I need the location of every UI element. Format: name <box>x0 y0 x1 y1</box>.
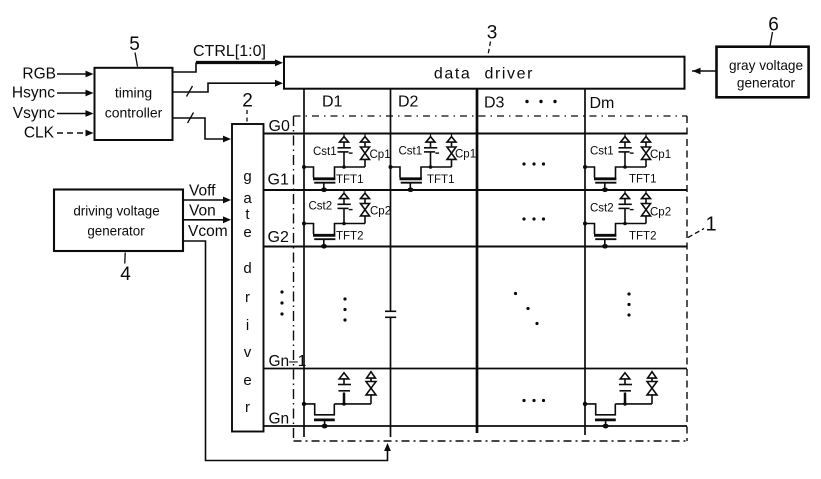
svg-text:generator: generator <box>737 76 796 91</box>
svg-text:CLK: CLK <box>24 125 55 142</box>
svg-text:Vcom: Vcom <box>188 223 228 240</box>
svg-text:1: 1 <box>705 214 716 236</box>
svg-text:driving voltage: driving voltage <box>73 204 159 219</box>
data driver box (3) <box>284 57 685 89</box>
wire: gray voltage generator to data driver <box>692 70 716 72</box>
gate line G2 <box>264 246 687 248</box>
gray voltage generator box (6) <box>717 47 809 98</box>
gate line G0 <box>264 133 687 135</box>
svg-text:D1: D1 <box>322 94 343 111</box>
svg-text:generator: generator <box>87 224 145 239</box>
svg-text:2: 2 <box>242 91 253 112</box>
svg-text:TFT1: TFT1 <box>629 174 656 186</box>
gate line Gn <box>264 425 687 427</box>
svg-text:3: 3 <box>487 23 498 44</box>
svg-text:CTRL[1:0]: CTRL[1:0] <box>193 43 266 60</box>
svg-text:Cst2: Cst2 <box>309 201 333 213</box>
svg-text:d: d <box>243 260 251 277</box>
svg-text:Voff: Voff <box>189 183 216 200</box>
svg-text:Vsync: Vsync <box>13 105 55 122</box>
svg-text:gray voltage: gray voltage <box>729 58 803 73</box>
svg-text:Hsync: Hsync <box>12 85 55 102</box>
svg-text:Cp1: Cp1 <box>650 149 671 161</box>
pixel cell TFT1 at Dm/G1 <box>583 134 651 192</box>
pixel cell TFT1 at D1/G1 <box>302 134 370 192</box>
svg-text:controller: controller <box>105 105 163 121</box>
wire: timing controller to data driver (lower) <box>173 83 277 92</box>
svg-text:G0: G0 <box>269 118 290 135</box>
pixel cell at Dm/Gn (unlabeled) <box>583 372 657 429</box>
svg-text:TFT1: TFT1 <box>336 174 363 186</box>
bus CTRL: timing controller to data driver <box>173 63 197 73</box>
vertical ellipsis left of panel <box>280 290 283 315</box>
data line D3 (thick) <box>476 89 479 433</box>
svg-text:Cp1: Cp1 <box>370 149 391 161</box>
pixel cell TFT1 at D2/G1 <box>389 134 457 192</box>
svg-text:Cst1: Cst1 <box>399 146 423 158</box>
svg-text:Cst2: Cst2 <box>590 203 614 215</box>
gate line G1 <box>264 189 687 191</box>
svg-text:TFT1: TFT1 <box>427 174 454 186</box>
driving voltage generator box (4) <box>54 190 183 252</box>
svg-text:D2: D2 <box>398 94 419 111</box>
bus slash mark <box>187 86 193 97</box>
svg-text:data driver: data driver <box>434 66 534 83</box>
svg-text:5: 5 <box>129 34 140 55</box>
horizontal ellipsis bottom row between D3 and Dm <box>522 399 545 402</box>
svg-text:timing: timing <box>115 85 152 101</box>
svg-text:v: v <box>244 344 252 361</box>
panel dashed border (LCD panel 1) <box>294 115 688 117</box>
svg-text:g: g <box>243 168 251 185</box>
svg-text:Cp2: Cp2 <box>370 206 391 218</box>
svg-text:a: a <box>243 190 252 207</box>
svg-text:Gn: Gn <box>269 411 290 428</box>
svg-text:Gn–1: Gn–1 <box>269 353 307 370</box>
timing controller box (5) <box>95 68 173 140</box>
svg-text:D3: D3 <box>484 95 505 112</box>
svg-text:Cp1: Cp1 <box>455 149 476 161</box>
pixel cell TFT2 at Dm/G2 <box>583 191 651 249</box>
svg-text:Dm: Dm <box>590 95 615 112</box>
svg-text:4: 4 <box>120 264 131 285</box>
svg-text:6: 6 <box>768 15 779 36</box>
ellipsis dots after D3 label <box>525 100 556 103</box>
horizontal ellipsis row1 between D3 and Dm <box>522 162 545 165</box>
data line Dm <box>584 89 586 435</box>
svg-text:r: r <box>245 399 250 416</box>
svg-text:Cp2: Cp2 <box>650 207 671 219</box>
svg-text:G1: G1 <box>268 172 289 189</box>
svg-text:e: e <box>243 224 251 241</box>
pixel cell at D1/Gn (unlabeled) <box>302 372 376 429</box>
data line D2 (with capacitor break) <box>390 89 392 311</box>
gate driver box (2) <box>232 124 264 432</box>
data line D1 <box>303 89 305 437</box>
gate line Gn-1 <box>264 368 687 370</box>
svg-text:Cst1: Cst1 <box>590 146 614 158</box>
pixel cell TFT2 at D1/G2 <box>302 191 370 249</box>
vertical ellipsis in D1 column <box>343 297 346 321</box>
svg-text:RGB: RGB <box>22 66 56 83</box>
svg-text:r: r <box>245 289 250 306</box>
svg-text:Cst1: Cst1 <box>313 146 337 158</box>
svg-text:e: e <box>243 372 251 389</box>
svg-text:Von: Von <box>189 203 216 220</box>
diagonal ellipsis between D3 and Dm <box>514 292 539 325</box>
svg-text:i: i <box>246 317 249 334</box>
bus slash mark <box>188 113 194 124</box>
vertical ellipsis in Dm column <box>627 292 630 316</box>
svg-text:TFT2: TFT2 <box>629 231 656 243</box>
svg-text:TFT2: TFT2 <box>336 231 363 243</box>
svg-text:G2: G2 <box>268 229 289 246</box>
horizontal ellipsis row2 between D3 and Dm <box>522 217 545 220</box>
wire: timing controller to gate driver <box>173 118 225 139</box>
